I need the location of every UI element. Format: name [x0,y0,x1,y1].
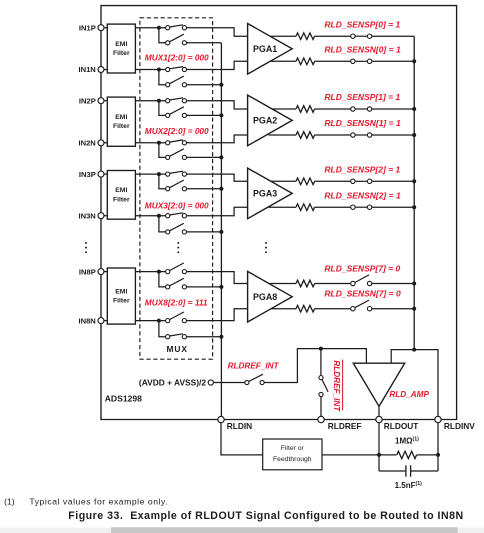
svg-text:RLD_SENSN[2] = 1: RLD_SENSN[2] = 1 [324,190,401,200]
svg-text:RLD_SENSP[7] = 0: RLD_SENSP[7] = 0 [324,263,400,273]
svg-text:PGA2: PGA2 [253,116,277,126]
svg-text:Filter: Filter [113,196,130,203]
svg-text:IN1N: IN1N [78,65,95,74]
svg-text:IN8P: IN8P [79,267,96,276]
svg-text:MUX3[2:0] = 000: MUX3[2:0] = 000 [145,200,209,210]
svg-text:IN8N: IN8N [78,316,95,325]
svg-text:(AVDD + AVSS)/2: (AVDD + AVSS)/2 [139,377,206,387]
svg-text:MUX1[2:0] = 000: MUX1[2:0] = 000 [145,52,209,62]
svg-text:IN1P: IN1P [79,23,96,32]
svg-text:RLD_AMP: RLD_AMP [389,390,429,399]
svg-text:PGA8: PGA8 [253,292,277,302]
svg-text:MUX: MUX [167,344,188,354]
svg-text:EMI: EMI [115,41,127,48]
svg-text:IN3N: IN3N [78,211,95,220]
svg-text:PGA3: PGA3 [253,189,277,199]
svg-text:MUX2[2:0] = 000: MUX2[2:0] = 000 [145,126,209,136]
svg-text:Figure 33. Example of RLDOUT: Figure 33. Example of RLDOUT Signal Conf… [68,510,463,522]
svg-text:RLD_SENSP[2] = 1: RLD_SENSP[2] = 1 [324,165,400,175]
svg-text:RLDOUT: RLDOUT [384,421,419,431]
svg-text:PGA1: PGA1 [253,44,277,54]
svg-text:RLD_SENSN[0] = 1: RLD_SENSN[0] = 1 [324,45,401,55]
svg-text:EMI: EMI [115,288,127,295]
svg-text:Filter: Filter [113,298,130,305]
svg-text:RLD_SENSN[1] = 1: RLD_SENSN[1] = 1 [324,118,401,128]
svg-text:IN3P: IN3P [79,170,96,179]
svg-text:ADS1298: ADS1298 [105,393,142,403]
svg-text:RLDREF_INT: RLDREF_INT [228,361,280,370]
svg-text:RLDREF_INT: RLDREF_INT [332,360,341,412]
svg-text:MUX8[2:0] = 111: MUX8[2:0] = 111 [145,298,208,308]
svg-text:RLD_SENSP[1] = 1: RLD_SENSP[1] = 1 [324,92,400,102]
svg-text:Feedthrough: Feedthrough [273,456,312,463]
svg-text:RLD_SENSN[7] = 0: RLD_SENSN[7] = 0 [324,289,401,299]
svg-text:(1): (1) [4,497,15,507]
svg-text:EMI: EMI [115,187,127,194]
svg-text:Filter or: Filter or [281,445,305,452]
svg-text:RLDINV: RLDINV [444,421,475,431]
svg-text:EMI: EMI [115,114,127,121]
svg-text:Typical values for example onl: Typical values for example only. [29,497,168,507]
svg-text:RLD_SENSP[0] = 1: RLD_SENSP[0] = 1 [324,19,400,29]
svg-text:Filter: Filter [113,50,130,57]
svg-text:Filter: Filter [113,123,130,130]
svg-text:IN2P: IN2P [79,96,96,105]
svg-text:RLDIN: RLDIN [227,421,252,431]
svg-text:IN2N: IN2N [78,139,95,148]
svg-text:RLDREF: RLDREF [328,421,362,431]
